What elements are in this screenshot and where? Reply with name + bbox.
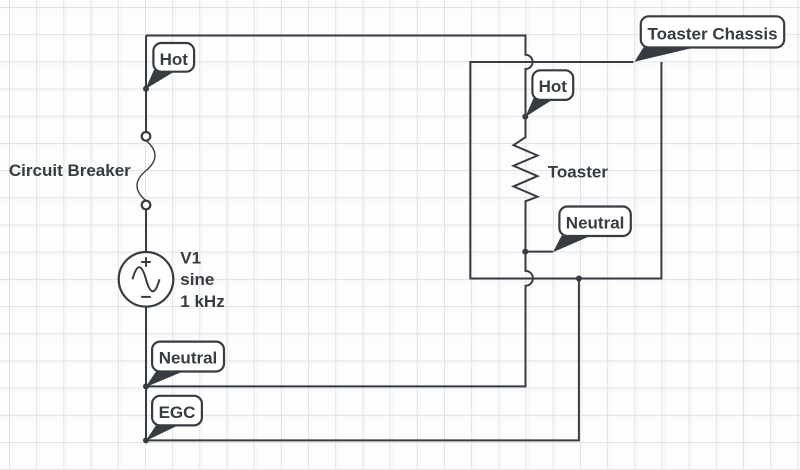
svg-text:EGC: EGC (159, 403, 196, 422)
svg-text:Neutral: Neutral (159, 349, 218, 368)
svg-text:Hot: Hot (539, 77, 568, 96)
svg-text:Toaster Chassis: Toaster Chassis (647, 25, 777, 44)
svg-text:Neutral: Neutral (566, 214, 625, 233)
svg-text:Circuit Breaker: Circuit Breaker (9, 161, 131, 180)
svg-text:Toaster: Toaster (548, 163, 609, 182)
svg-text:Hot: Hot (160, 50, 189, 69)
svg-text:1 kHz: 1 kHz (180, 292, 224, 311)
svg-text:V1: V1 (180, 249, 201, 268)
svg-text:sine: sine (180, 270, 214, 289)
